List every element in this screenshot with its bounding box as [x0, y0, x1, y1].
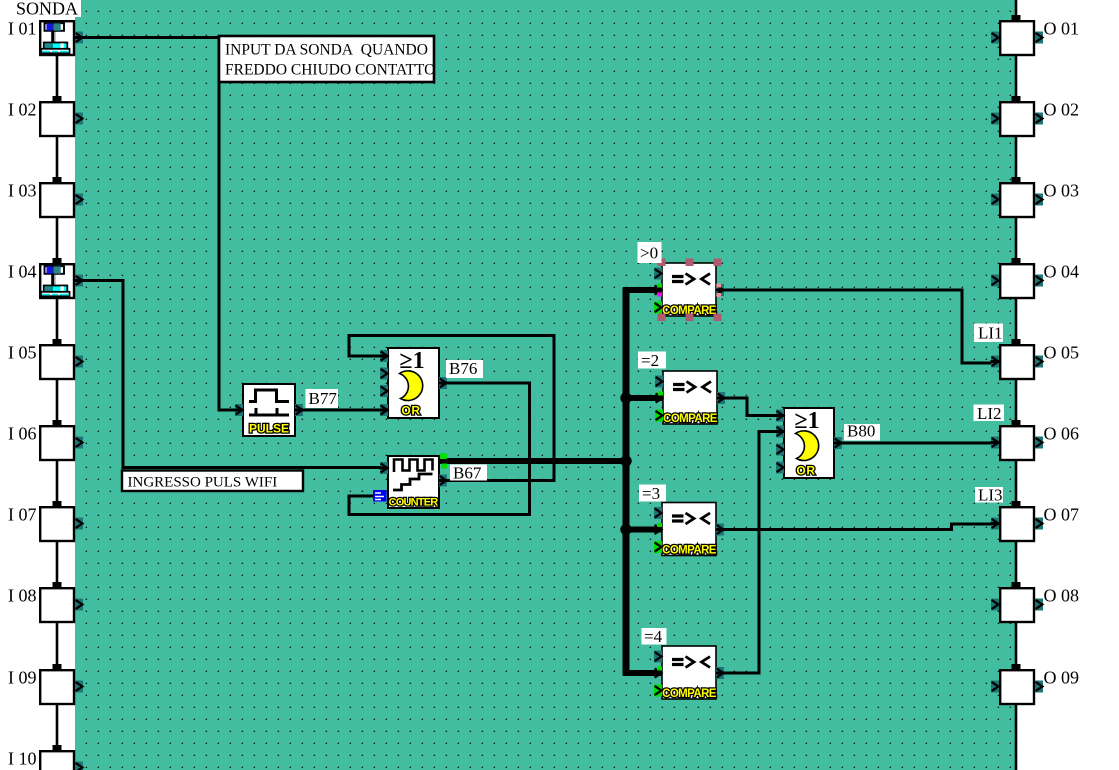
svg-text:O 07: O 07	[1044, 505, 1080, 525]
output block O 06	[991, 424, 1080, 461]
label B67	[450, 464, 487, 483]
function block COMPARE4 (=4)	[654, 646, 725, 700]
output block O 09	[991, 668, 1079, 705]
COUNTER reset input icon	[373, 490, 387, 502]
svg-text:=4: =4	[644, 627, 663, 646]
wire COMPARE3 output to O07 input (LI3)	[716, 524, 1000, 530]
svg-text:O 09: O 09	[1044, 668, 1080, 688]
svg-text:O 08: O 08	[1044, 586, 1080, 606]
svg-text:SONDA: SONDA	[16, 0, 78, 19]
function block OR B80	[776, 408, 843, 478]
function block COMPARE3 (=3)	[654, 503, 725, 557]
input block I 02	[8, 100, 83, 137]
svg-text:O 02: O 02	[1044, 100, 1080, 120]
svg-text:=2: =2	[641, 351, 659, 370]
output block O 04	[991, 262, 1079, 299]
svg-text:O 01: O 01	[1044, 19, 1080, 39]
function block COMPARE2 (=2)	[655, 371, 726, 425]
function block COUNTER B67	[373, 454, 448, 509]
label LI1	[974, 324, 1003, 343]
wire output-rail chain	[1015, 0, 1018, 770]
function block PULSE B77	[235, 384, 304, 436]
output block O 05	[991, 343, 1080, 380]
input block I 01	[8, 19, 84, 56]
svg-text:B77: B77	[309, 389, 338, 408]
svg-text:O 03: O 03	[1044, 181, 1080, 201]
wire OR B80 output to O06 input (LI2)	[834, 442, 1000, 445]
output block O 01	[991, 19, 1079, 56]
input block I 03	[8, 181, 83, 218]
output block O 08	[991, 586, 1079, 623]
svg-text:O 05: O 05	[1044, 343, 1080, 363]
svg-text:OR: OR	[401, 404, 420, 418]
COUNTER value output markers	[440, 454, 447, 460]
comment box INGRESSO PULS WIFI	[122, 471, 303, 492]
wire thick stub to COMPARE2 input	[623, 395, 663, 401]
label =3	[639, 484, 666, 503]
label =4	[642, 627, 667, 646]
wire I01 output to PULSE B77 input	[75, 38, 243, 411]
junction on bus at COMPARE3 input	[620, 524, 631, 535]
junction on bus at COUNTER output	[620, 455, 631, 466]
wire COMPARE1 output to O05 input (LI1)	[716, 290, 1000, 363]
svg-text:I 06: I 06	[8, 424, 37, 444]
svg-text:I 02: I 02	[8, 100, 37, 120]
svg-text:B76: B76	[449, 359, 477, 378]
node label SONDA	[13, 0, 81, 19]
wire COMPARE4 output to OR B80 input2	[716, 432, 784, 674]
label B76	[446, 359, 483, 378]
svg-text:COMPARE: COMPARE	[663, 413, 718, 425]
input block I 05	[8, 343, 83, 380]
svg-text:O 06: O 06	[1044, 424, 1080, 444]
wire input-rail chain	[56, 56, 59, 745]
svg-text:B80: B80	[847, 422, 875, 441]
label =2	[638, 351, 666, 370]
svg-text:COMPARE: COMPARE	[662, 545, 717, 557]
svg-text:I 07: I 07	[8, 505, 37, 525]
label B77	[306, 389, 339, 408]
svg-text:INPUT DA SONDA QUANDO: INPUT DA SONDA QUANDO	[225, 42, 428, 59]
svg-text:I 08: I 08	[8, 586, 37, 606]
input block I 10	[8, 749, 83, 770]
svg-text:LI3: LI3	[978, 486, 1003, 505]
output block O 03	[991, 181, 1079, 218]
input block I 04	[8, 262, 84, 299]
svg-text:I 05: I 05	[8, 343, 37, 363]
svg-text:I 10: I 10	[8, 749, 37, 769]
function block COMPARE1 (>0) - selected	[654, 259, 725, 322]
input block I 09	[8, 668, 83, 705]
svg-text:B67: B67	[453, 464, 482, 483]
output block O 02	[991, 100, 1079, 137]
label LI2	[974, 404, 1005, 423]
label >0	[638, 242, 662, 263]
wire thick bus COUNTER B67 value output to compare blocks	[440, 458, 626, 464]
svg-text:FREDDO CHIUDO CONTATTO: FREDDO CHIUDO CONTATTO	[225, 62, 435, 79]
svg-text:I 01: I 01	[8, 19, 37, 39]
wire COUNTER B67 output2 to OR B76 input1 (feedback loop)	[349, 336, 554, 481]
svg-text:LI1: LI1	[978, 324, 1003, 343]
wire thick stub to COMPARE4 input	[623, 670, 662, 676]
label LI3	[975, 486, 1003, 505]
svg-text:OR: OR	[796, 464, 815, 478]
input block I 08	[8, 586, 83, 623]
function block OR B76	[380, 348, 448, 418]
svg-text:≥1: ≥1	[794, 408, 819, 434]
wire OR B76 output to COUNTER B67 reset input (feedback loop)	[349, 383, 530, 515]
svg-text:INGRESSO PULS WIFI: INGRESSO PULS WIFI	[128, 475, 278, 491]
svg-text:I 04: I 04	[8, 262, 37, 282]
input block I 07	[8, 505, 83, 542]
output block O 07	[991, 505, 1080, 542]
wire PULSE B77 output to OR B76 input 4	[295, 409, 388, 412]
wire I04 output to COUNTER B67 count input	[75, 281, 388, 468]
svg-text:≥1: ≥1	[399, 348, 424, 374]
wire thick stub to COMPARE1 input	[623, 287, 661, 293]
svg-text:O 04: O 04	[1044, 262, 1080, 282]
label B80	[844, 422, 880, 441]
svg-text:=3: =3	[642, 484, 660, 503]
svg-text:I 09: I 09	[8, 668, 37, 688]
wire COMPARE2 output to OR B80 input1	[714, 398, 784, 416]
input block I 06	[8, 424, 83, 461]
svg-text:COMPARE: COMPARE	[662, 688, 717, 700]
svg-text:COUNTER: COUNTER	[389, 497, 439, 509]
selection handles of COMPARE1	[658, 259, 666, 267]
wire thick stub to COMPARE3 input	[623, 527, 662, 533]
junction on bus at COMPARE2 input	[620, 392, 631, 403]
svg-text:PULSE: PULSE	[249, 422, 289, 436]
svg-text:LI2: LI2	[977, 404, 1002, 423]
svg-text:I 03: I 03	[8, 181, 37, 201]
svg-text:>0: >0	[640, 244, 658, 263]
comment box INPUT DA SONDA	[219, 36, 435, 82]
